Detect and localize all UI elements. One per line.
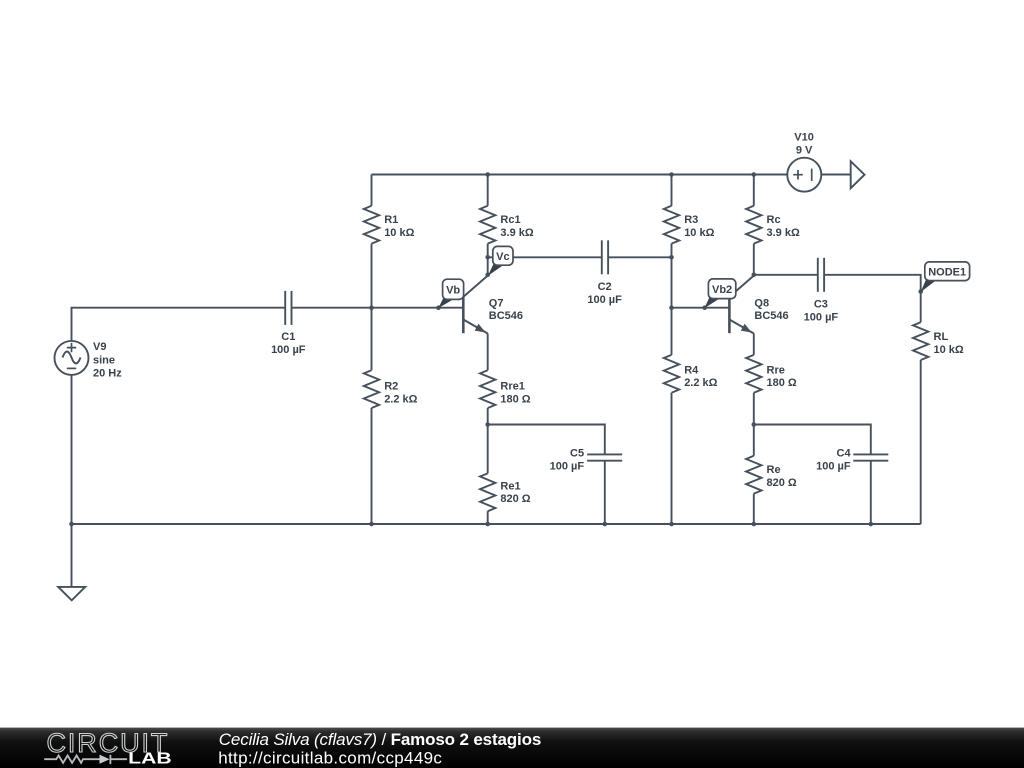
wire Rc bottom to Q8 collector xyxy=(753,244,755,275)
junction Vc wire at Rc1 xyxy=(485,255,490,260)
wire Rre junction to C4 xyxy=(754,425,871,455)
svg-text:RL: RL xyxy=(934,331,949,343)
wire C3 to NODE1 corner xyxy=(824,275,921,322)
wire R4 bottom lead xyxy=(671,393,673,524)
junction V9 bottom rail xyxy=(69,522,74,527)
wire R2 bottom lead xyxy=(371,408,373,524)
label Rre value xyxy=(767,364,797,389)
svg-text:10 kΩ: 10 kΩ xyxy=(934,344,964,356)
junction Rc top rail xyxy=(752,172,757,177)
wire R1 bottom to base-wire junction xyxy=(371,244,373,308)
svg-text:LAB: LAB xyxy=(128,751,172,768)
junction R2 bottom rail xyxy=(369,522,374,527)
transistor Q7 xyxy=(463,276,487,334)
resistor R4 xyxy=(664,355,679,393)
label R2 value xyxy=(384,381,417,406)
net flag arrow at V10 xyxy=(851,161,865,188)
svg-text:Q8: Q8 xyxy=(754,297,769,309)
svg-text:BC546: BC546 xyxy=(489,310,523,322)
capacitor C1 left plate xyxy=(284,291,286,325)
svg-text:10 kΩ: 10 kΩ xyxy=(384,227,414,239)
label Q8 part xyxy=(754,297,788,322)
wire R1 top lead xyxy=(371,175,373,206)
svg-text:C4: C4 xyxy=(837,447,852,459)
svg-text:100 µF: 100 µF xyxy=(550,460,585,472)
label Rc value xyxy=(767,214,800,239)
resistor R2 xyxy=(364,370,379,408)
svg-text:100 µF: 100 µF xyxy=(271,344,306,356)
label Rc1 value xyxy=(500,214,533,239)
label C5 value xyxy=(550,447,585,472)
svg-text:C3: C3 xyxy=(814,299,828,311)
footer bar xyxy=(0,728,1024,768)
junction Re1 bottom rail xyxy=(485,522,490,527)
junction R3 R4 base node xyxy=(669,305,674,310)
wire Rre bottom to C4 junction xyxy=(753,393,755,425)
wire Rre1 junction down to Re1 xyxy=(487,425,489,474)
svg-text:9 V: 9 V xyxy=(796,144,813,156)
svg-text:http://circuitlab.com/ccp449c: http://circuitlab.com/ccp449c xyxy=(218,748,442,767)
svg-text:3.9 kΩ: 3.9 kΩ xyxy=(500,227,533,239)
wire Rre1 junction to C5 xyxy=(488,425,605,455)
wire C1 to Q7 base xyxy=(292,307,464,309)
capacitor C2 left plate xyxy=(601,240,603,274)
label R1 value xyxy=(384,214,414,239)
label RL value xyxy=(934,331,964,356)
CircuitLab logo resistor-diode squiggle xyxy=(44,755,127,764)
svg-text:180 Ω: 180 Ω xyxy=(767,377,797,389)
node tag Vc xyxy=(488,262,504,276)
resistor Re1 xyxy=(480,473,495,511)
junction R3 top rail xyxy=(669,172,674,177)
node tag NODE1 xyxy=(921,278,936,292)
wire Rc1 top lead xyxy=(487,175,489,206)
label C4 value xyxy=(816,447,851,472)
resistor R1 xyxy=(364,206,379,244)
svg-text:Rre1: Rre1 xyxy=(500,381,524,393)
svg-text:R3: R3 xyxy=(684,214,698,226)
junction C5 bottom rail xyxy=(603,522,608,527)
junction Rre C4 node xyxy=(752,422,757,427)
svg-text:V10: V10 xyxy=(794,131,814,143)
wire R2 top lead xyxy=(371,308,373,371)
junction Q8 collector node xyxy=(752,273,757,278)
label C2 value xyxy=(587,281,622,306)
label C1 value xyxy=(271,331,306,356)
wire top rail from R1 to V10 xyxy=(372,174,788,176)
svg-text:Vc: Vc xyxy=(496,251,509,263)
svg-text:180 Ω: 180 Ω xyxy=(500,393,530,405)
label V9 params xyxy=(93,341,122,379)
junction R1 R2 base node xyxy=(369,305,374,310)
capacitor C3 right plate xyxy=(823,258,825,292)
svg-text:Vb: Vb xyxy=(446,284,460,296)
svg-text:Q7: Q7 xyxy=(489,297,504,309)
wire Rc1 bottom to Q7 collector xyxy=(487,244,489,275)
svg-text:Rc: Rc xyxy=(767,214,781,226)
svg-text:10 kΩ: 10 kΩ xyxy=(684,227,714,239)
resistor Re xyxy=(746,456,761,494)
ground xyxy=(58,587,85,600)
svg-text:C2: C2 xyxy=(598,281,612,293)
capacitor C3 left plate xyxy=(817,258,819,292)
svg-text:20 Hz: 20 Hz xyxy=(93,367,122,379)
label R3 value xyxy=(684,214,714,239)
label C3 value xyxy=(804,299,839,324)
capacitor C1 right plate xyxy=(291,291,293,325)
resistor Rc xyxy=(746,206,761,244)
transistor Q8 xyxy=(729,276,753,334)
resistor RL xyxy=(913,322,928,360)
junction Rc1 top rail xyxy=(485,172,490,177)
capacitor C4 top plate xyxy=(853,453,888,455)
battery V10 xyxy=(787,158,821,192)
label Re1 value xyxy=(500,480,530,505)
svg-text:NODE1: NODE1 xyxy=(928,266,966,278)
node Vb2 attach dot xyxy=(702,305,707,310)
svg-text:Cecilia Silva (cflavs7) / Famo: Cecilia Silva (cflavs7) / Famoso 2 estag… xyxy=(219,730,541,749)
wire V9 bottom to ground xyxy=(71,375,73,587)
CircuitLab logo diode triangle xyxy=(100,755,110,764)
junction R4 bottom rail xyxy=(669,522,674,527)
junction Re bottom rail xyxy=(752,522,757,527)
wire RL bottom lead xyxy=(920,360,922,524)
junction C2 at R3 column xyxy=(669,255,674,260)
wire Re bottom lead xyxy=(753,494,755,524)
label Re value xyxy=(767,464,797,489)
wire R3 bottom through C2 and base junctions xyxy=(671,244,673,355)
svg-text:100 µF: 100 µF xyxy=(587,294,622,306)
svg-text:100 µF: 100 µF xyxy=(804,312,839,324)
wire bottom rail xyxy=(72,523,921,525)
svg-text:100 µF: 100 µF xyxy=(816,460,851,472)
svg-text:R1: R1 xyxy=(384,214,398,226)
svg-text:V9: V9 xyxy=(93,341,106,353)
svg-text:BC546: BC546 xyxy=(754,310,788,322)
svg-text:2.2 kΩ: 2.2 kΩ xyxy=(384,393,417,405)
wire Rre junction down to Re xyxy=(753,425,755,456)
capacitor C2 right plate xyxy=(607,240,609,274)
svg-text:C1: C1 xyxy=(281,331,295,343)
wire Q8 collector to C3 xyxy=(754,274,818,276)
resistor R3 xyxy=(664,206,679,244)
junction C4 bottom rail xyxy=(869,522,874,527)
svg-text:2.2 kΩ: 2.2 kΩ xyxy=(684,377,717,389)
wire R4 junction to Q8 base xyxy=(672,307,730,309)
junction Rre1 C5 node xyxy=(485,422,490,427)
svg-text:Vb2: Vb2 xyxy=(712,284,732,296)
svg-text:3.9 kΩ: 3.9 kΩ xyxy=(767,227,800,239)
resistor Rre1 xyxy=(480,370,495,408)
svg-text:Re: Re xyxy=(767,464,781,476)
wire C5 bottom lead xyxy=(604,461,606,524)
node NODE1 attach dot xyxy=(918,289,923,294)
wire Re1 bottom lead xyxy=(487,511,489,524)
svg-text:Re1: Re1 xyxy=(500,480,520,492)
svg-text:R4: R4 xyxy=(684,364,699,376)
wire C2 to R3 column xyxy=(608,256,671,258)
svg-text:Rc1: Rc1 xyxy=(500,214,520,226)
node Vb attach dot xyxy=(436,305,441,310)
node tag Vb xyxy=(438,296,453,308)
svg-text:C5: C5 xyxy=(570,447,584,459)
wire R3 top lead xyxy=(671,175,673,206)
svg-text:820 Ω: 820 Ω xyxy=(767,477,797,489)
label V10 value xyxy=(794,131,814,156)
svg-text:Rre: Rre xyxy=(767,364,785,376)
wire V9 top to C1 xyxy=(72,308,286,341)
svg-text:820 Ω: 820 Ω xyxy=(500,493,530,505)
node tag Vb2 xyxy=(705,296,720,309)
label Q7 part xyxy=(489,297,523,322)
junction Q7 collector node xyxy=(485,273,490,278)
capacitor C5 top plate xyxy=(587,453,622,455)
wire C4 bottom lead xyxy=(870,461,872,524)
wire Rre1 bottom to C5 junction xyxy=(487,408,489,425)
svg-text:R2: R2 xyxy=(384,381,398,393)
svg-text:sine: sine xyxy=(93,354,115,366)
resistor Rc1 xyxy=(480,206,495,244)
capacitor C5 bottom plate xyxy=(587,460,622,462)
wire V10 to net flag xyxy=(821,174,850,176)
resistor Rre xyxy=(746,355,761,393)
label R4 value xyxy=(684,364,717,389)
wire Q8 emitter lead down xyxy=(753,334,755,355)
label Rre1 value xyxy=(500,381,530,406)
capacitor C4 bottom plate xyxy=(853,460,888,462)
wire Q7 emitter lead down xyxy=(487,334,489,371)
wire Rc top lead xyxy=(753,175,755,206)
wire Q7 collector to C2 xyxy=(488,256,602,258)
voltage source V9 sine xyxy=(55,341,89,375)
